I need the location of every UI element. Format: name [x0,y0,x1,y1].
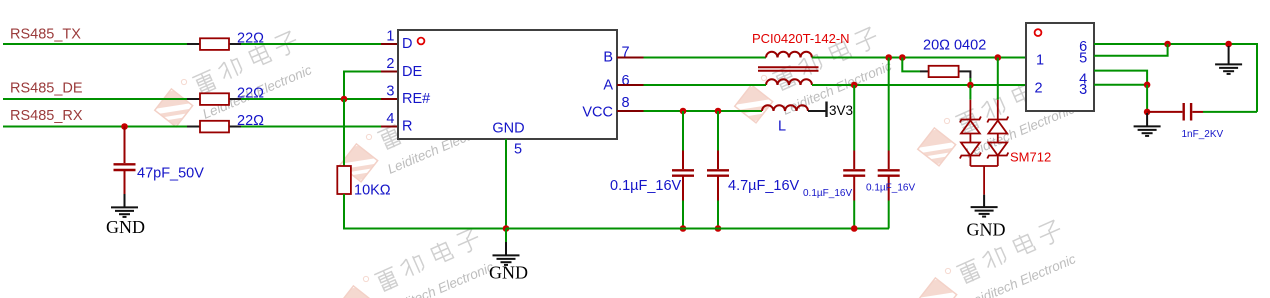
svg-text:GND: GND [489,263,528,283]
choke T1 winding top [766,52,812,58]
wire L to 3V3 rail [808,110,827,112]
power rail 3V3 bar [825,102,827,118]
resistor R-term 20Ω leads [920,71,970,78]
capacitor C3 lead bottom [853,177,855,201]
wire RS485_DE to R-DE [3,98,187,100]
svg-text:B: B [603,50,613,66]
resistor R-TX 22Ω leads [187,43,241,45]
svg-text:4: 4 [386,111,394,127]
resistor R-DE 22Ω body [200,93,229,105]
U1 pin1 marker circle [418,38,425,45]
wire J1 pin3 [1094,84,1147,86]
svg-text:0.1µF_16V: 0.1µF_16V [803,188,852,199]
resistor 10KΩ wire from junction [343,99,345,166]
svg-text:0.1µF_16V: 0.1µF_16V [610,178,682,194]
svg-text:RE#: RE# [402,91,430,107]
pin stub U1 pin7 B [617,57,644,59]
connector J1 body [1026,23,1094,111]
svg-text:47pF_50V: 47pF_50V [137,166,204,182]
svg-text:GND: GND [106,217,145,237]
svg-text:RS485_RX: RS485_RX [10,108,83,124]
wire VCC to inductor L [644,110,763,112]
svg-text:PCI0420T-142-N: PCI0420T-142-N [752,31,850,46]
wire RS485_RX to R-RX [3,126,187,128]
capacitor C1 lead bottom [682,177,684,201]
capacitor C5 lead right [1192,111,1203,113]
choke T1 winding bottom [766,79,812,85]
wire A to choke bottom [644,84,767,86]
wire R-RX to U1 pin4 [241,126,381,128]
svg-text:VCC: VCC [582,105,613,121]
wire 10KΩ to ground bus [344,194,506,229]
capacitor C2 lead bottom [717,177,719,201]
svg-text:DE: DE [402,64,422,80]
wire DE/RE# tie to U1 pin2 [344,72,381,100]
resistor R-RX 22Ω body [200,121,229,133]
wire R-term to A line [969,78,971,85]
wire choke top to connector pin1 [812,57,1026,59]
capacitor C2 plates [707,170,729,175]
wire R-DE to junction [241,98,381,100]
capacitor C5 1nF_2KV lead left [1147,111,1182,113]
capacitor C3 plates [843,170,865,175]
svg-text:8: 8 [622,95,630,111]
capacitor C5 plates [1184,103,1191,121]
svg-text:20Ω 0402: 20Ω 0402 [923,38,986,54]
svg-text:4.7µF_16V: 4.7µF_16V [728,178,800,194]
junction A/R-term/TVS [967,82,974,89]
capacitor C4 0.1uF lead top [888,58,890,151]
wire RS485_TX to R-TX [3,43,187,45]
junction C3/ground bus [851,225,858,232]
svg-text:5: 5 [514,142,522,158]
ground top right [1215,46,1242,74]
svg-text:3: 3 [1079,82,1087,98]
junction C2/ground bus [715,225,722,232]
wire R-TX to U1 pin1 [241,43,381,45]
pin stub U1 pin6 A [617,84,644,86]
junction A/C3 [851,82,858,89]
svg-text:2: 2 [1035,80,1043,96]
junction pin4/pin3 [1144,82,1151,89]
connector J1 pin1 marker circle [1035,29,1042,36]
pin stub U1 pin1 [381,43,398,45]
pin stub U1 pin2 [381,71,398,73]
wire B tap down to R-term [902,58,920,72]
svg-text:1: 1 [386,29,394,45]
junction pin6/pin5 [1164,41,1171,48]
resistor R-TX 22Ω body [200,38,229,50]
junction C1/ground bus [680,225,687,232]
svg-text:SM712: SM712 [1010,150,1051,165]
capacitor C-47pF lead bottom [124,171,126,194]
junction VCC/C2 [715,108,722,115]
junction B/TVS [995,54,1002,61]
svg-text:10KΩ: 10KΩ [354,183,391,199]
resistor 10KΩ body [337,166,351,194]
wire U1 pin5 to ground bus [505,139,507,229]
wire J1 pin6 to right [1094,44,1257,112]
ground below pin5 [505,229,507,243]
TVS bottom join wire [970,166,997,195]
svg-text:3: 3 [386,84,394,100]
svg-text:3V3: 3V3 [829,103,853,118]
pin stub U1 pin4 [381,126,398,128]
ground below SM712 [971,195,998,217]
choke T1 core [758,67,819,70]
capacitor C-47pF lead top [124,127,126,164]
wire B to choke T1 [644,57,767,59]
junction VCC/C1 [680,108,687,115]
junction RX/C-47pF [121,123,128,130]
capacitor C-47pF plates [114,164,136,170]
svg-text:R: R [402,119,412,135]
svg-text:1nF_2KV: 1nF_2KV [1182,129,1224,140]
capacitor C2 4.7uF lead top [717,111,719,151]
svg-text:0.1µF_16V: 0.1µF_16V [866,183,915,194]
op-amp U1 transceiver body [398,30,617,139]
svg-text:6: 6 [622,73,630,89]
wire A tap down to TVS left stack [969,85,971,100]
svg-text:2: 2 [386,56,394,72]
TVS D1 left stack (SM712) [960,100,981,166]
wire J1 pin4 down to pin3 net [1094,71,1147,85]
svg-text:L: L [778,119,786,135]
resistor R-DE 22Ω leads [187,98,241,100]
junction pin3 net/C5/ground [1144,109,1151,116]
svg-text:RS485_TX: RS485_TX [10,27,81,43]
ground below C5 junction [1134,113,1161,136]
wire choke bottom to connector pin2 [812,84,1026,86]
capacitor C4 plates [878,170,900,175]
junction B/R-term [899,54,906,61]
svg-text:A: A [603,78,613,94]
pin stub U1 pin8 VCC [617,110,644,112]
TVS D2 right stack (SM712) [987,100,1008,166]
svg-text:5: 5 [1079,51,1087,67]
capacitor C1 plates [672,170,694,175]
wire pin3 net down to C5 [1146,85,1148,112]
inductor L winding [762,105,808,111]
junction DE/RE# [341,96,348,103]
wire J1 pin5 up to pin6 net [1094,44,1168,56]
svg-text:1: 1 [1036,52,1044,68]
ground bus wire [506,228,889,230]
capacitor C3 0.1uF lead top [853,85,855,151]
svg-text:D: D [402,36,412,52]
ground below C-47pF [111,194,138,217]
capacitor C1 0.1uF lead top [682,111,684,151]
junction pin5/ground bus [503,225,510,232]
pin stub U1 pin3 [381,98,398,100]
junction B/C4 [885,54,892,61]
svg-text:GND: GND [967,220,1006,240]
junction pin6 net/ground [1225,41,1232,48]
wire B tap down to TVS right stack [997,58,999,100]
capacitor C4 lead bottom [888,177,890,201]
resistor R-term 20Ω body [929,66,959,77]
resistor R-RX 22Ω leads [187,126,241,128]
svg-text:GND: GND [492,121,524,137]
svg-text:RS485_DE: RS485_DE [10,81,83,97]
